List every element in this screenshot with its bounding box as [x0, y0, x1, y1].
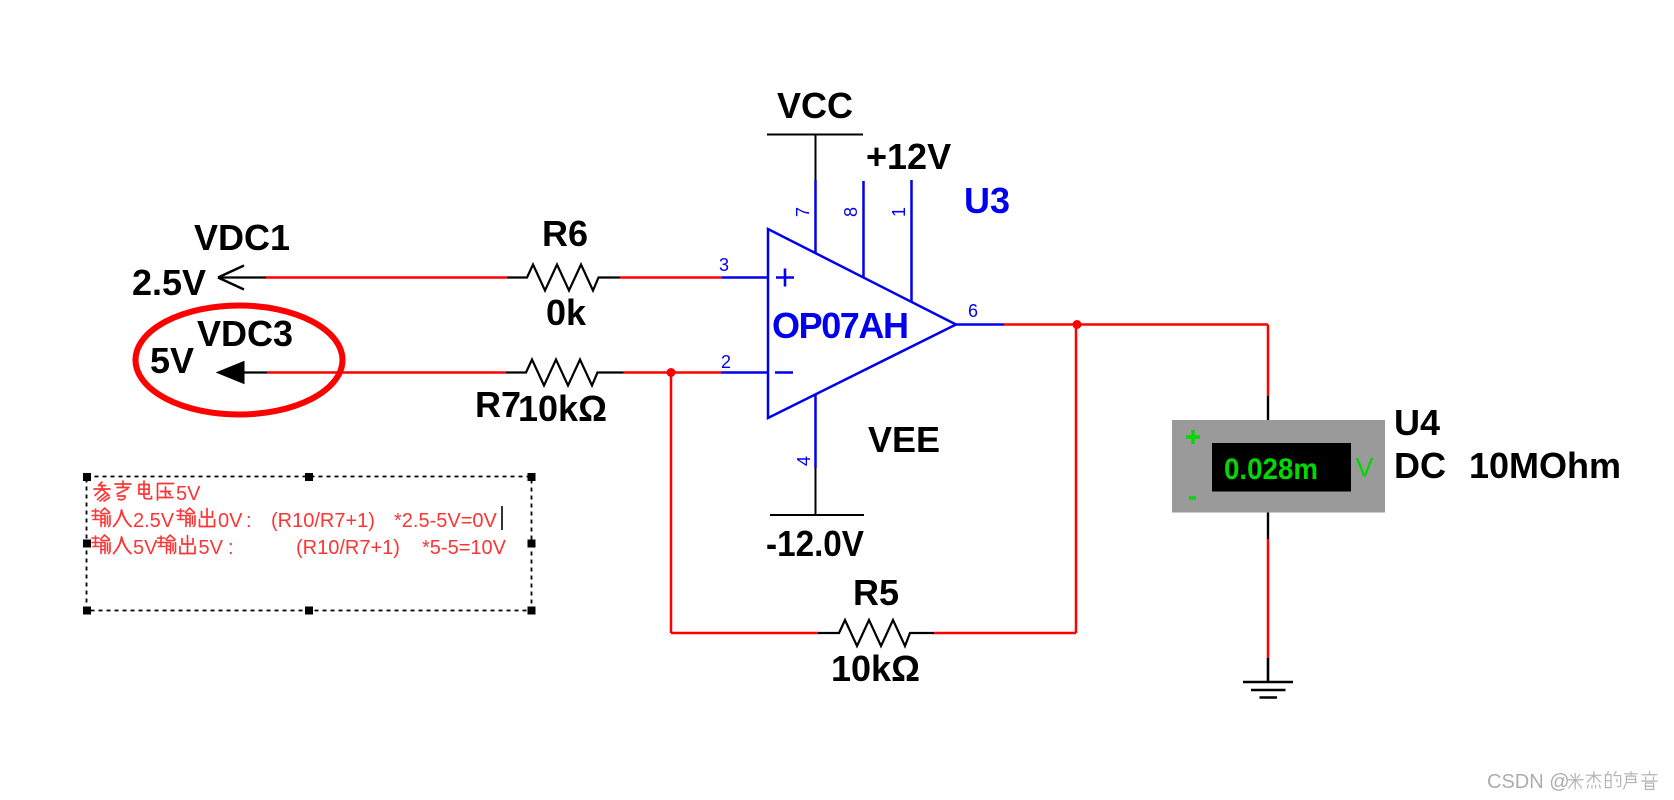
pin6 wire blue: [956, 323, 1004, 326]
svg-text:2.5V: 2.5V: [133, 510, 175, 532]
svg-text:*2.5-5V=0V: *2.5-5V=0V: [394, 510, 498, 532]
text caret: [501, 506, 503, 530]
svg-text:10MOhm: 10MOhm: [1469, 445, 1621, 486]
junction node inverting input: [667, 368, 676, 377]
VCC power bar: [767, 135, 863, 181]
junction node output: [1073, 320, 1082, 329]
wire red R7 to pin2: [624, 371, 722, 374]
meter minus terminal: [1189, 496, 1196, 499]
svg-text:R5: R5: [853, 572, 899, 613]
op-amp U3 triangle: [768, 229, 956, 418]
svg-text:R6: R6: [542, 213, 588, 254]
svg-text:5V: 5V: [150, 340, 194, 381]
svg-text:1: 1: [889, 207, 909, 217]
pin2 wire blue: [721, 371, 768, 374]
resistor R5: [818, 620, 934, 646]
svg-text:+12V: +12V: [866, 136, 951, 177]
wire red feedback bottom right: [934, 632, 1076, 635]
multimeter U4 body: [1172, 420, 1385, 513]
svg-text:CSDN @: CSDN @: [1487, 771, 1570, 793]
wire red VDC3 to R7: [267, 371, 506, 374]
svg-text:0k: 0k: [546, 292, 587, 333]
svg-text:6: 6: [968, 301, 978, 321]
svg-text:U4: U4: [1394, 402, 1440, 443]
pin7 wire blue: [814, 180, 817, 253]
wire red feedback bottom left: [671, 632, 818, 635]
svg-text:VDC3: VDC3: [197, 313, 293, 354]
pin4 wire blue: [814, 394, 817, 468]
svg-text:10kΩ: 10kΩ: [518, 388, 607, 429]
svg-text:4: 4: [794, 456, 814, 466]
wire red output down to meter: [1267, 325, 1270, 397]
pin3 wire blue: [722, 276, 768, 279]
meter top stub black: [1267, 396, 1269, 420]
plus input marker: [776, 269, 794, 287]
op-amp U1 output wire red: [1004, 323, 1268, 326]
annotation line1: 参考电压5V: [94, 481, 174, 501]
wire red feedback right vertical: [1075, 325, 1078, 634]
svg-text:5V: 5V: [199, 537, 224, 559]
meter display: [1212, 443, 1351, 492]
red highlight ellipse: [136, 306, 343, 415]
svg-text:0V: 0V: [218, 510, 243, 532]
svg-text:5V: 5V: [176, 483, 201, 505]
svg-text:7: 7: [793, 207, 813, 217]
svg-text:3: 3: [719, 255, 729, 275]
ground symbol: [1243, 682, 1293, 698]
svg-text:2.5V: 2.5V: [132, 262, 206, 303]
wire red meter to ground: [1267, 539, 1270, 658]
meter bottom stub black: [1267, 513, 1269, 540]
svg-text:2: 2: [721, 352, 731, 372]
wire black VDC1 tail: [218, 276, 266, 278]
svg-text:VDC1: VDC1: [194, 217, 290, 258]
resistor R6: [507, 265, 620, 291]
VEE power bar: [770, 468, 864, 515]
wire red feedback left vertical: [670, 373, 673, 634]
wire red VDC1 to R6: [266, 276, 507, 279]
svg-text:R7: R7: [475, 384, 521, 425]
svg-text:V: V: [1356, 453, 1374, 483]
ground stub black: [1267, 658, 1270, 682]
svg-text::: :: [228, 537, 234, 559]
svg-text:5V: 5V: [133, 537, 158, 559]
annotation dashed box: [87, 477, 532, 611]
VDC1 arrow (open): [218, 266, 244, 290]
annotation line2: [92, 508, 131, 527]
svg-text:10kΩ: 10kΩ: [831, 648, 920, 689]
annotation handles: [83, 473, 536, 615]
svg-text:OP07AH: OP07AH: [772, 305, 909, 346]
wire red R6 to pin3: [620, 276, 722, 279]
svg-text:0.028m: 0.028m: [1224, 453, 1318, 486]
svg-text:VCC: VCC: [777, 85, 853, 126]
svg-text:U3: U3: [964, 180, 1010, 221]
VDC3 arrow (solid): [217, 362, 244, 384]
svg-text:(R10/R7+1): (R10/R7+1): [296, 537, 400, 559]
pin1 wire blue: [910, 180, 913, 301]
resistor R7: [506, 360, 624, 386]
meter plus terminal: [1186, 430, 1200, 444]
svg-text:(R10/R7+1): (R10/R7+1): [271, 510, 375, 532]
svg-text:8: 8: [841, 207, 861, 217]
annotation line3: [92, 535, 131, 554]
svg-text:*5-5=10V: *5-5=10V: [422, 537, 507, 559]
minus input marker: [775, 371, 793, 374]
svg-text:DC: DC: [1394, 445, 1446, 486]
pin8 wire blue: [862, 181, 865, 277]
wire black VDC3 tail: [244, 371, 267, 373]
svg-text::: :: [246, 510, 252, 532]
svg-text:VEE: VEE: [868, 419, 940, 460]
svg-text:-12.0V: -12.0V: [766, 523, 864, 564]
